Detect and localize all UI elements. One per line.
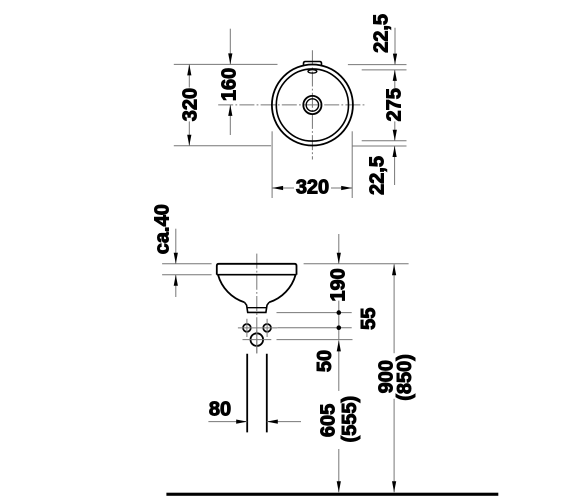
svg-text:50: 50 [314, 350, 336, 372]
svg-text:(850): (850) [394, 354, 416, 401]
svg-text:320: 320 [296, 177, 329, 199]
svg-text:275: 275 [384, 88, 406, 121]
svg-text:80: 80 [209, 399, 231, 421]
svg-text:22,5: 22,5 [371, 14, 393, 53]
svg-text:605: 605 [318, 404, 340, 437]
svg-text:55: 55 [358, 308, 380, 330]
svg-text:22,5: 22,5 [367, 156, 389, 195]
svg-text:160: 160 [219, 68, 241, 101]
svg-text:190: 190 [327, 268, 349, 301]
svg-text:(555): (555) [339, 396, 361, 443]
svg-text:ca.40: ca.40 [152, 204, 174, 254]
svg-text:320: 320 [179, 88, 201, 121]
